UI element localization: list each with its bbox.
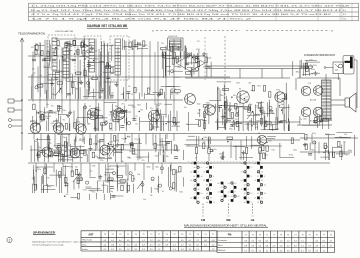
svg-text:17p: 17p [339,136,342,138]
svg-text:505n: 505n [264,126,268,128]
svg-text:k2: k2 [235,183,237,185]
svg-text:81p: 81p [100,97,103,99]
svg-text:060: 060 [248,83,251,85]
svg-text:42n: 42n [53,65,56,67]
svg-text:62k: 62k [251,90,254,92]
svg-text:214: 214 [177,122,180,124]
svg-text:945n: 945n [189,102,193,104]
svg-text:677n: 677n [229,140,233,142]
svg-text:d1: d1 [210,198,212,200]
svg-text:a4: a4 [194,167,196,169]
svg-text:3,9: 3,9 [315,245,318,247]
svg-text:a4: a4 [194,185,196,187]
svg-text:69: 69 [39,111,41,113]
svg-text:9: 9 [264,176,265,178]
svg-text:980: 980 [208,67,211,69]
svg-text:48u: 48u [41,121,44,123]
svg-text:58u: 58u [197,113,200,115]
svg-text:940u: 940u [206,103,210,105]
svg-text:313p: 313p [309,74,313,76]
svg-text:996p: 996p [229,129,233,131]
svg-text:752p: 752p [57,46,61,48]
svg-text:875p: 875p [289,154,293,156]
svg-text:923n: 923n [257,107,261,109]
svg-text:b2: b2 [203,163,205,165]
svg-text:8,1: 8,1 [134,249,137,251]
svg-text:36u: 36u [112,110,115,112]
svg-text:030p: 030p [52,41,56,43]
svg-text:01n: 01n [111,92,114,94]
svg-text:8,1: 8,1 [111,249,114,251]
svg-text:11n: 11n [245,97,248,99]
svg-text:185k: 185k [236,114,240,116]
svg-text:82n: 82n [313,121,316,123]
svg-text:c3: c3 [241,172,243,174]
svg-text:736k: 736k [176,59,180,61]
svg-text:330n: 330n [220,95,224,97]
svg-text:656p: 656p [245,100,249,102]
svg-text:T4: T4 [245,234,247,236]
svg-text:745k: 745k [92,166,96,168]
svg-text:798u: 798u [121,116,125,118]
svg-text:03: 03 [89,93,91,95]
svg-text:b2: b2 [218,183,220,185]
svg-text:4: 4 [261,189,262,191]
svg-text:82p: 82p [189,53,192,55]
svg-text:05n: 05n [66,194,69,196]
svg-text:96u: 96u [46,104,49,106]
svg-text:3,9: 3,9 [287,250,290,252]
svg-text:med modtageren på højt.: med modtageren på højt. [32,244,65,247]
svg-text:a4: a4 [244,202,246,204]
svg-text:746: 746 [93,143,96,145]
svg-text:083k: 083k [137,105,141,107]
svg-text:403p: 403p [127,136,131,138]
svg-text:3,9: 3,9 [294,245,297,247]
svg-text:w1: w1 [228,215,230,217]
svg-text:65u: 65u [47,112,50,114]
svg-text:4,5: 4,5 [315,240,318,242]
svg-text:17p: 17p [109,179,112,181]
svg-text:c3: c3 [231,196,233,198]
svg-text:1 L 23,5q G6L13q P84 x114 497m: 1 L 23,5q G6L13q P84 x114 497m 51 58,4m … [31,5,351,7]
svg-text:0,1: 0,1 [196,249,199,251]
svg-text:w1: w1 [202,215,204,217]
svg-text:349p: 349p [311,69,315,71]
svg-text:780: 780 [187,145,190,147]
svg-text:375p: 375p [57,127,61,129]
svg-text:0,1: 0,1 [189,240,192,242]
svg-text:32u: 32u [157,105,160,107]
svg-text:703p: 703p [127,158,131,160]
svg-text:262: 262 [198,110,201,112]
svg-text:840p: 840p [204,137,208,139]
svg-text:6,4: 6,4 [119,240,122,242]
svg-text:884n: 884n [147,167,151,169]
svg-text:0,8: 0,8 [244,240,247,242]
svg-text:317: 317 [123,47,126,49]
svg-text:0,1: 0,1 [104,249,107,251]
svg-text:b2: b2 [191,198,193,200]
svg-text:360p: 360p [222,157,226,159]
svg-text:889n: 889n [98,110,102,112]
svg-text:Bånd: Bånd [218,244,222,247]
svg-text:48k: 48k [82,139,85,141]
svg-text:2,7: 2,7 [330,245,333,247]
svg-text:b2: b2 [191,180,193,182]
svg-text:DETEKTOR: DETEKTOR [168,36,178,38]
svg-text:b2: b2 [194,176,196,178]
svg-text:190u: 190u [121,138,125,140]
svg-text:60n: 60n [275,95,278,97]
svg-text:5,4: 5,4 [181,249,184,251]
svg-text:27p: 27p [38,147,41,149]
svg-text:T1: T1 [273,234,275,236]
svg-text:MB: MB [226,218,230,222]
svg-text:1,2: 1,2 [301,240,304,242]
svg-text:98k: 98k [167,71,170,73]
svg-text:k2: k2 [238,196,240,198]
svg-text:T4: T4 [330,234,332,236]
svg-text:c3: c3 [221,196,223,198]
svg-text:TELEGRAMMOFON: TELEGRAMMOFON [18,32,45,36]
svg-text:T6: T6 [259,234,261,236]
svg-text:T4: T4 [204,234,206,236]
svg-text:39p: 39p [137,174,140,176]
svg-text:8,1: 8,1 [280,250,283,252]
svg-text:KONDENSATORMIKROFON: KONDENSATORMIKROFON [304,54,335,57]
svg-text:341: 341 [64,55,67,57]
svg-text:8,1: 8,1 [251,250,254,252]
svg-text:64k: 64k [233,95,236,97]
svg-text:134n: 134n [150,119,154,121]
svg-text:16n: 16n [152,129,155,131]
svg-text:33k: 33k [43,58,46,60]
svg-text:3,9: 3,9 [165,244,168,246]
svg-text:72: 72 [109,114,111,116]
svg-text:9: 9 [235,192,236,194]
svg-text:87u: 87u [142,160,145,162]
svg-text:107: 107 [192,70,195,72]
svg-text:5,4: 5,4 [244,250,247,252]
svg-text:33: 33 [70,77,72,79]
svg-text:951p: 951p [276,123,280,125]
svg-text:377n: 377n [104,175,108,177]
svg-text:59: 59 [253,124,255,126]
svg-text:k2: k2 [251,193,253,195]
svg-text:c3: c3 [221,187,223,189]
svg-text:32u: 32u [161,43,164,45]
svg-text:0,1: 0,1 [273,250,276,252]
svg-text:60u: 60u [162,55,165,57]
svg-text:k2: k2 [213,202,215,204]
svg-text:86u: 86u [166,156,169,158]
svg-text:512p: 512p [97,141,101,143]
svg-text:2,7: 2,7 [196,240,199,242]
svg-text:693u: 693u [101,117,105,119]
svg-text:3,9: 3,9 [308,245,311,247]
svg-text:514u: 514u [55,49,59,51]
svg-text:b2: b2 [257,193,259,195]
svg-text:095n: 095n [98,181,102,183]
svg-text:60u: 60u [231,118,234,120]
svg-text:1,2: 1,2 [294,250,297,252]
svg-text:997n: 997n [264,154,268,156]
svg-text:379p: 379p [276,90,280,92]
svg-text:2,7: 2,7 [119,244,122,246]
svg-text:124k: 124k [208,58,212,60]
svg-text:1,2: 1,2 [212,244,215,246]
svg-text:4,5: 4,5 [266,240,269,242]
svg-text:83: 83 [239,89,241,91]
svg-text:91n: 91n [81,150,84,152]
svg-text:14u: 14u [214,149,217,151]
svg-text:c3: c3 [228,183,230,185]
svg-text:74: 74 [300,119,302,121]
svg-text:T7: T7 [158,234,160,236]
svg-text:48: 48 [75,50,77,52]
svg-text:716p: 716p [271,113,275,115]
svg-text:69: 69 [131,94,133,96]
svg-text:987u: 987u [213,107,217,109]
svg-text:47k: 47k [51,106,54,108]
svg-text:937: 937 [345,155,348,157]
svg-text:697: 697 [35,43,38,45]
svg-text:8,1: 8,1 [196,244,199,246]
svg-text:Spændinger målt m/u rørvoltmet: Spændinger målt m/u rørvoltmeter / uden … [32,240,87,243]
svg-text:9: 9 [213,167,214,169]
svg-text:4,5: 4,5 [181,240,184,242]
svg-text:93k: 93k [150,195,153,197]
svg-text:435n: 435n [175,94,179,96]
svg-text:647p: 647p [37,169,41,171]
svg-text:T6: T6 [287,234,289,236]
svg-text:14 7 5 1 9 q4 75,4 8L 23 m6 9,: 14 7 5 1 9 q4 75,4 8L 23 m6 9,1 47 58s B… [31,19,255,21]
svg-text:578u: 578u [66,45,70,47]
svg-text:2: 2 [9,239,11,243]
svg-text:6,4: 6,4 [294,240,297,242]
svg-text:123u: 123u [175,172,179,174]
svg-text:382: 382 [77,82,80,84]
svg-text:1,2: 1,2 [165,240,168,242]
svg-text:b2: b2 [191,172,193,174]
svg-text:19k: 19k [128,86,131,88]
svg-text:2,7: 2,7 [273,245,276,247]
svg-text:1,2: 1,2 [142,240,145,242]
svg-text:74p: 74p [250,146,253,148]
svg-text:99p: 99p [140,110,143,112]
svg-text:47u: 47u [34,141,37,143]
svg-text:LB: LB [251,218,255,222]
svg-text:0,8: 0,8 [251,245,254,247]
svg-text:4: 4 [213,176,214,178]
svg-text:541p: 541p [257,85,261,87]
svg-text:Emitter: Emitter [82,248,88,251]
svg-text:67p: 67p [133,178,136,180]
svg-text:61: 61 [136,89,138,91]
svg-text:c3: c3 [254,180,256,182]
svg-text:T5: T5 [119,234,121,236]
svg-text:b2: b2 [241,163,243,165]
svg-text:624u: 624u [194,56,198,58]
svg-text:045p: 045p [311,150,315,152]
svg-text:Forstærker: Forstærker [218,239,227,242]
svg-text:MÅLINGANGIVESKONDENSATOR HØJT: MÅLINGANGIVESKONDENSATOR HØJT I STILLING… [184,224,268,227]
svg-text:08k: 08k [121,94,124,96]
svg-text:k2: k2 [198,189,200,191]
svg-text:T6: T6 [280,234,282,236]
svg-text:T3: T3 [104,234,106,236]
svg-text:12: 12 [257,176,259,178]
svg-text:158p: 158p [109,191,113,193]
svg-text:36u: 36u [167,122,170,124]
svg-text:31u: 31u [86,57,89,59]
svg-text:0,8: 0,8 [204,240,207,242]
svg-text:0,1: 0,1 [150,244,153,246]
svg-text:a4: a4 [206,193,208,195]
svg-text:569: 569 [282,99,285,101]
svg-text:T7: T7 [323,234,325,236]
svg-text:8,1: 8,1 [308,250,311,252]
svg-text:0,8: 0,8 [212,240,215,242]
svg-text:04u: 04u [114,145,117,147]
svg-text:22n: 22n [135,124,138,126]
svg-text:4,5: 4,5 [251,240,254,242]
svg-text:T6: T6 [301,234,303,236]
svg-text:20k: 20k [84,106,87,108]
svg-text:662u: 662u [259,142,263,144]
svg-text:41n: 41n [135,154,138,156]
svg-text:93n: 93n [143,199,146,201]
svg-text:134n: 134n [303,118,307,120]
svg-text:9: 9 [251,167,252,169]
svg-text:9: 9 [228,196,229,198]
svg-text:634n: 634n [236,82,240,84]
svg-text:k2: k2 [264,193,266,195]
svg-text:014n: 014n [309,65,313,67]
svg-text:12: 12 [241,189,243,191]
svg-text:4: 4 [210,189,211,191]
svg-text:8,1: 8,1 [142,249,145,251]
svg-text:b2: b2 [203,180,205,182]
svg-text:c3: c3 [241,180,243,182]
svg-text:22k: 22k [343,142,346,144]
svg-text:56k: 56k [217,89,220,91]
svg-text:5,4: 5,4 [104,244,107,246]
svg-text:4,5: 4,5 [111,240,114,242]
svg-text:160p: 160p [155,167,159,169]
svg-text:406p: 406p [47,186,51,188]
svg-text:4: 4 [201,167,202,169]
svg-text:4,5: 4,5 [127,240,130,242]
svg-text:18n: 18n [193,59,196,61]
svg-text:79k: 79k [62,120,65,122]
svg-text:464k: 464k [39,117,43,119]
svg-text:2,7: 2,7 [330,240,333,242]
svg-text:Mellemfr.: Mellemfr. [218,250,226,252]
svg-text:3,9: 3,9 [158,244,161,246]
svg-text:ART: ART [88,233,94,236]
svg-text:15: 15 [284,96,286,98]
svg-text:0,1: 0,1 [301,245,304,247]
svg-text:6,4: 6,4 [127,244,130,246]
svg-text:T6: T6 [252,234,254,236]
svg-text:4 7 9 x 7q 514 41 7 q1 78,9L 7: 4 7 9 x 7q 514 41 7 q1 78,9L 754 88m 9s … [31,14,334,16]
svg-text:234n: 234n [177,67,181,69]
svg-text:801: 801 [112,45,115,47]
svg-text:2,7: 2,7 [173,244,176,246]
svg-text:k2: k2 [261,172,263,174]
svg-text:5,4: 5,4 [258,250,261,252]
svg-text:75p: 75p [75,167,78,169]
svg-text:496p: 496p [48,143,52,145]
svg-text:T1: T1 [127,234,129,236]
svg-text:131u: 131u [94,156,98,158]
svg-text:AC128: AC128 [310,99,317,102]
svg-text:T5: T5 [309,234,311,236]
svg-text:6,4: 6,4 [258,240,261,242]
svg-text:b2: b2 [206,185,208,187]
svg-text:717p: 717p [134,139,138,141]
svg-text:713p: 713p [62,137,66,139]
svg-text:67k: 67k [47,177,50,179]
svg-text:37p: 37p [325,134,328,136]
svg-text:3,9: 3,9 [315,250,318,252]
svg-text:a4: a4 [206,167,208,169]
svg-text:d1: d1 [261,180,263,182]
svg-text:2,7: 2,7 [181,244,184,246]
svg-text:376n: 376n [90,79,94,81]
svg-text:3,9: 3,9 [189,249,192,251]
svg-text:3,9: 3,9 [212,249,215,251]
svg-text:24n: 24n [131,153,134,155]
svg-text:34n: 34n [325,150,328,152]
svg-text:5,4: 5,4 [189,244,192,246]
svg-text:319n: 319n [222,116,226,118]
svg-text:13u: 13u [184,107,187,109]
svg-text:T2: T2 [150,234,152,236]
svg-text:15p: 15p [35,49,38,51]
svg-text:5,4: 5,4 [258,245,261,247]
svg-text:28k: 28k [61,145,64,147]
svg-text:427: 427 [197,41,200,43]
svg-text:69: 69 [135,116,137,118]
svg-text:T1: T1 [142,234,144,236]
svg-text:c3: c3 [254,198,256,200]
svg-text:DIAGRAM VIST I STILLING MB: DIAGRAM VIST I STILLING MB [87,24,128,28]
svg-text:61p: 61p [77,122,80,124]
svg-text:277p: 277p [121,104,125,106]
svg-text:171: 171 [203,142,206,144]
svg-text:4,5: 4,5 [287,245,290,247]
svg-text:354p: 354p [197,104,201,106]
svg-text:1,2: 1,2 [287,240,290,242]
svg-text:837u: 837u [313,65,317,67]
svg-text:158u: 158u [219,154,223,156]
svg-text:d1: d1 [210,180,212,182]
svg-text:080p: 080p [109,129,113,131]
svg-text:17k: 17k [43,66,46,68]
svg-text:T2: T2 [173,234,175,236]
svg-text:1,2: 1,2 [322,250,325,252]
svg-text:383p: 383p [51,94,55,96]
svg-text:T1: T1 [266,234,268,236]
svg-text:12: 12 [257,202,259,204]
svg-text:0,8: 0,8 [244,245,247,247]
svg-text:k2: k2 [210,163,212,165]
svg-text:12: 12 [244,193,246,195]
svg-text:120k: 120k [151,180,155,182]
